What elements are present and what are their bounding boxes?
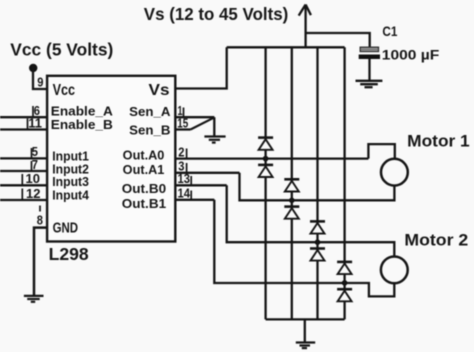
IC label GND (53, 221, 79, 237)
IC label Enable_A (51, 104, 113, 118)
IC label Enable_B (51, 118, 113, 132)
wire pin 15 Sen_B (175, 128, 190, 130)
node out B0 junction (315, 239, 321, 245)
wire pin 2 Out.A0 to bridge and motor 1 (175, 157, 368, 159)
diode D3 upper col2 (284, 179, 299, 191)
pin 3 label (178, 159, 184, 174)
node out A0 junction (263, 156, 269, 162)
pin 13 label (178, 171, 191, 186)
diode D4 lower col2 (284, 207, 299, 219)
svg-text:Out.B0: Out.B0 (122, 182, 166, 196)
IC part number L298 (49, 244, 89, 264)
label C1 value 1000 uF (382, 48, 440, 63)
wire pin 12 Input4 (0, 199, 47, 201)
IC label Vs (149, 82, 170, 99)
IC label Out.A0 (123, 149, 165, 163)
motor M1 (381, 159, 408, 186)
diode D5 upper col3 (310, 221, 325, 233)
pin 15 label (177, 115, 188, 130)
svg-text:15: 15 (177, 115, 188, 130)
svg-text:L298: L298 (49, 244, 89, 264)
svg-text:Vcc: Vcc (53, 82, 76, 99)
svg-text:7: 7 (32, 157, 38, 172)
label Motor 2 (404, 230, 468, 249)
svg-text:1000 µF: 1000 µF (382, 48, 440, 63)
diode D2 lower col1 (258, 165, 273, 177)
node out B1 junction (342, 280, 348, 286)
svg-text:Enable_A: Enable_A (51, 104, 113, 118)
diode D8 lower col4 (337, 289, 352, 301)
node Vcc dot (29, 64, 37, 72)
pin 1 label (178, 103, 183, 118)
IC label Input3 (52, 175, 89, 189)
diode D1 upper col1 (258, 138, 273, 150)
svg-text:C1: C1 (382, 23, 397, 39)
pin 2 label (178, 144, 184, 159)
Vs supply arrow (299, 5, 311, 48)
wire pin 14 Out.B1 (175, 199, 214, 201)
IC label Vcc (53, 82, 76, 99)
bridge column 1 (264, 47, 266, 319)
svg-text:Out.A1: Out.A1 (123, 163, 165, 177)
svg-text:Enable_B: Enable_B (51, 118, 113, 132)
IC label Out.A1 (123, 163, 165, 177)
bridge column 2 (291, 47, 293, 319)
ground bottom (296, 343, 315, 349)
diode D6 lower col3 (310, 249, 325, 261)
ground below IC GND (24, 296, 44, 302)
wire Vcc to pin 9 (33, 65, 47, 90)
wire pin 13 Out.B0 (175, 184, 226, 186)
wire pin 6 Enable_A (0, 116, 47, 118)
IC label Input2 (52, 163, 89, 177)
wire Vs arrow to C1 (306, 33, 370, 47)
svg-text:10: 10 (26, 171, 40, 186)
pin 14 label (178, 186, 191, 201)
ground below C1 (356, 81, 383, 87)
IC label Out.B1 (122, 197, 166, 211)
svg-text:Vs (12 to 45 Volts): Vs (12 to 45 Volts) (144, 4, 288, 24)
IC label Sen_B (129, 123, 170, 137)
wire pin 10 Input3 (0, 184, 47, 186)
top supply rail (227, 46, 345, 48)
wire pin 14 elbow to bridge (214, 200, 344, 283)
bottom ground rail (266, 318, 345, 320)
svg-text:13: 13 (178, 171, 191, 186)
wire motor 1 top jog (368, 144, 394, 159)
svg-text:Input4: Input4 (52, 189, 89, 203)
wire pin 13 elbow to motor 2 top (227, 185, 395, 256)
wire rail to ground (304, 319, 306, 342)
svg-text:GND: GND (53, 221, 79, 237)
wire pin 3 Out.A1 (175, 172, 239, 174)
svg-text:Vs: Vs (149, 82, 170, 99)
label C1 (382, 23, 397, 39)
pin 10 label (26, 171, 40, 186)
svg-text:2: 2 (178, 144, 184, 159)
ground sense (204, 137, 225, 143)
pin 12 label (26, 186, 40, 201)
wire pin 1 Sen_A (175, 116, 214, 118)
wire pin 3 elbow to motor 1 bottom (240, 173, 395, 201)
wire motor 2 bottom jog (345, 283, 395, 296)
svg-text:Out.B1: Out.B1 (122, 197, 166, 211)
pin 9 label (37, 75, 43, 90)
svg-text:9: 9 (37, 75, 43, 90)
svg-text:Input3: Input3 (52, 175, 89, 189)
IC label Sen_A (129, 105, 170, 119)
wire pin 11 Enable_B (0, 128, 47, 130)
svg-text:Motor 2: Motor 2 (404, 230, 468, 249)
pin 5 label (32, 144, 38, 159)
wire Sen_B diagonal (191, 118, 214, 130)
wire Vs pin to rail (175, 47, 226, 88)
pin 8 label (37, 213, 43, 228)
wire sense to ground (213, 117, 215, 136)
bridge column 3 (316, 47, 318, 319)
svg-text:Sen_A: Sen_A (129, 105, 170, 119)
svg-text:Sen_B: Sen_B (129, 123, 170, 137)
svg-text:14: 14 (178, 186, 191, 201)
svg-text:Motor 1: Motor 1 (407, 132, 470, 151)
label Vs supply (144, 4, 288, 24)
motor M2 (381, 257, 408, 284)
svg-text:Vcc (5 Volts): Vcc (5 Volts) (10, 40, 113, 60)
IC label Out.B0 (122, 182, 166, 196)
svg-text:11: 11 (28, 115, 42, 130)
pin 7 label (32, 157, 38, 172)
svg-text:Out.A0: Out.A0 (123, 149, 165, 163)
capacitor C1 (359, 47, 380, 80)
pin 11 label (28, 115, 42, 130)
diode D7 upper col4 (337, 262, 352, 274)
label Vcc supply (10, 40, 113, 60)
label Motor 1 (407, 132, 470, 151)
node out A1 junction (289, 198, 295, 204)
pin 6 label (34, 103, 40, 118)
svg-text:8: 8 (37, 213, 43, 228)
bridge column 4 (343, 47, 345, 319)
wire pin 5 Input1 (0, 157, 47, 159)
wire pin 7 Input2 (0, 170, 47, 172)
IC label Input1 (52, 150, 89, 164)
pin 8 GND stub (34, 228, 47, 296)
IC label Input4 (52, 189, 89, 203)
svg-text:12: 12 (26, 186, 40, 201)
IC U1 L298 box (47, 76, 175, 242)
